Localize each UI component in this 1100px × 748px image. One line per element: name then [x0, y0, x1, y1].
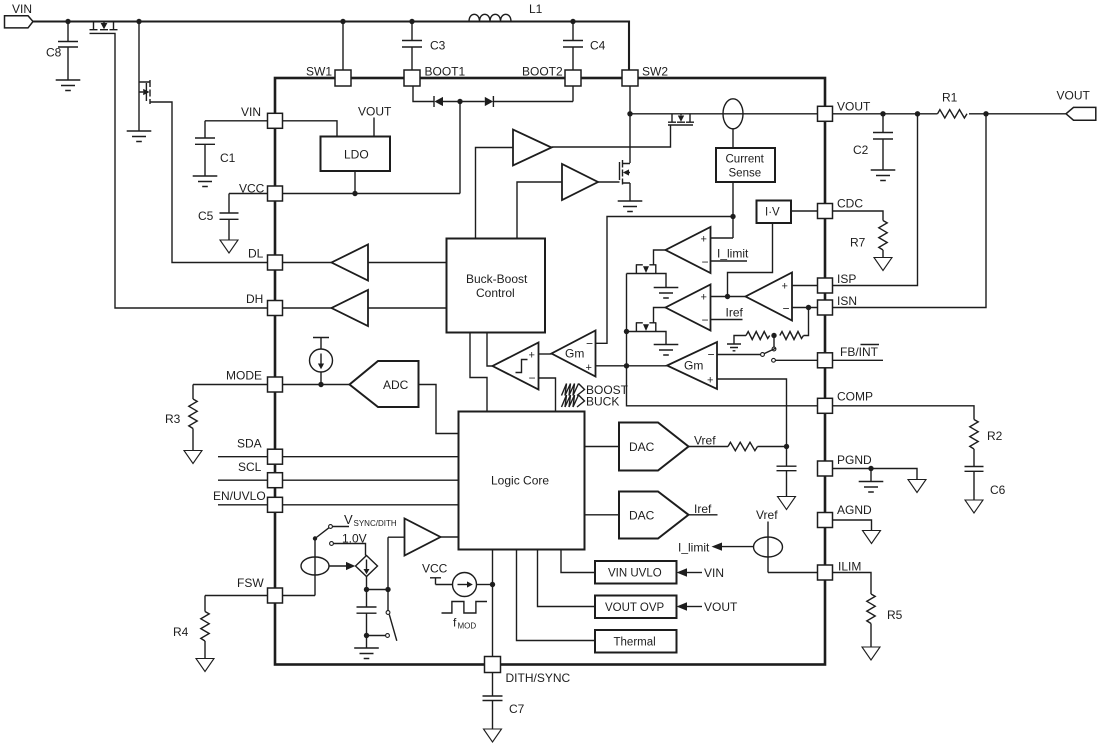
capacitor C7 [483, 673, 503, 730]
BUCK ramp symbol [562, 395, 585, 407]
svg-text:DH: DH [246, 292, 263, 306]
wire: Logic Core to VIN UVLO [561, 550, 595, 573]
capacitor Cdith [357, 607, 377, 648]
svg-text:VIN UVLO: VIN UVLO [608, 568, 662, 580]
pin PGND [818, 461, 833, 476]
wire: Logic Core to DITH/SYNC pin [492, 550, 494, 657]
wire: divider left to small ground [734, 336, 746, 345]
IC boundary [275, 78, 825, 665]
pin SCL [268, 473, 283, 488]
pin BOOT2 [565, 70, 581, 86]
node: LDO output [352, 191, 357, 196]
svg-text:C1: C1 [220, 151, 236, 165]
wire: Gm1 plus / Gm2 output row [596, 365, 668, 367]
capacitor C1 [195, 121, 267, 176]
wire: Vref filter node [758, 446, 787, 448]
svg-text:Iref: Iref [694, 502, 712, 516]
pin ISP [818, 278, 833, 293]
transistor Q3 (high-side output FET inline on VOUT row) [552, 114, 695, 147]
ground (PGND stub, 3-bar) [859, 469, 884, 493]
svg-text:Vref: Vref [694, 434, 716, 448]
resistor R1 [938, 110, 968, 118]
wire: ILIM to R5 [832, 573, 871, 595]
current sense probe ellipse on VOUT row [723, 99, 743, 129]
wire: I_limit comparator output to Q5 gate [654, 250, 666, 265]
node: FSW switch blade [313, 536, 317, 540]
ground (PGND, open triangle) [908, 480, 926, 493]
diode D2 (BOOT2 charge) [460, 86, 573, 107]
wire: A3 minus input to ISN [792, 307, 818, 309]
svg-text:AGND: AGND [837, 503, 872, 517]
svg-text:DL: DL [248, 247, 264, 261]
svg-text:ILIM: ILIM [838, 560, 861, 574]
wire: I-V converter output to Iref plus node [728, 223, 773, 297]
svg-text:C3: C3 [430, 39, 446, 53]
arrow: VOUT into OVP [677, 602, 703, 611]
wire: FB divider to ISN node [804, 308, 809, 336]
ground (Q4 source, 3-bar) [618, 201, 643, 212]
svg-text:+: + [782, 281, 788, 293]
node: dither B [385, 587, 390, 592]
wire: COMP to compensation network [832, 406, 974, 420]
pin BOOT1 [404, 70, 420, 86]
wire: C4 drop to BOOT2 [563, 22, 583, 71]
ground (Q2 source, 3-bar) [127, 131, 152, 142]
svg-text:Control: Control [476, 286, 515, 300]
svg-text:1.0V: 1.0V [342, 532, 367, 546]
buffer amp U4 (sync buffer) [405, 519, 459, 556]
svg-text:BOOT2: BOOT2 [522, 65, 563, 79]
wire: I_limit minus net [711, 260, 748, 262]
wire: FSW pin to dither network [283, 539, 315, 596]
node: Iref plus [725, 294, 730, 299]
resistor R4 [201, 596, 267, 659]
pin SDA [268, 449, 283, 464]
resistor RFB2 (divider right) [780, 332, 804, 340]
svg-text:+: + [701, 292, 707, 304]
wire: Iref minus net [711, 319, 743, 321]
svg-text:C4: C4 [590, 39, 606, 53]
svg-text:C6: C6 [990, 483, 1006, 497]
ground (R3, open triangle) [184, 451, 202, 464]
wire: FB/INT external stub [832, 359, 883, 361]
capacitor C8 [58, 22, 78, 81]
svg-text:Buck-Boost: Buck-Boost [466, 272, 528, 286]
ground (Q6, 3-bar) [654, 345, 679, 356]
comparator Iref (U8) [666, 285, 711, 331]
node: MODE current source [318, 382, 323, 387]
wire: AGND external [832, 520, 872, 531]
svg-text:VCC: VCC [239, 182, 265, 196]
wire: DH driver row [283, 307, 447, 309]
svg-text:R5: R5 [887, 608, 903, 622]
node VOUT (output tag) [1066, 107, 1096, 120]
wire: PGND external [832, 469, 917, 480]
wire: SW2 node down to low-side FET [629, 86, 631, 163]
svg-text:VCC: VCC [422, 562, 448, 576]
block Buck-Boost Control [447, 239, 546, 333]
svg-text:MODE: MODE [226, 369, 262, 383]
svg-text:+: + [707, 375, 713, 387]
resistor R2 [970, 420, 978, 467]
wire: C3 drop to BOOT1 [402, 22, 422, 71]
block VOUT OVP [595, 596, 677, 619]
pin COMP [818, 398, 833, 413]
resistor Rss (Vref filter) [728, 442, 758, 450]
label Iref (comparator net) [726, 306, 744, 320]
wire: Logic Core to DAC1 [585, 446, 620, 448]
svg-text:SW1: SW1 [306, 65, 332, 79]
svg-text:R7: R7 [850, 236, 866, 250]
wire: EN/UVLO line [218, 504, 459, 506]
oscillator probe ellipse (FSW) [301, 557, 329, 575]
svg-text:FB/INT: FB/INT [840, 345, 879, 359]
ADC block (pentagon) [350, 361, 419, 407]
svg-text:C2: C2 [853, 143, 869, 157]
pin MODE [268, 377, 283, 392]
ground (C7, open triangle) [484, 729, 502, 742]
pin CDC [818, 204, 833, 219]
diode D1 (BOOT1 charge) [434, 96, 460, 107]
transistor Q1 (input pass FET on rail) [90, 22, 268, 309]
svg-text:Thermal: Thermal [614, 637, 656, 649]
svg-text:R3: R3 [165, 412, 181, 426]
ground (FB divider, small 3-bar) [727, 344, 741, 351]
amp Gm2 (voltage error amp) [667, 342, 717, 389]
svg-text:SCL: SCL [238, 460, 262, 474]
pin SW1 [335, 70, 351, 86]
svg-text:Gm: Gm [565, 347, 584, 361]
node: FB divider mid [771, 333, 776, 338]
node: clamp rail upper [624, 329, 629, 334]
dependent source VCCS (diamond) [356, 556, 378, 577]
ground (dither, 3-bar) [354, 648, 379, 659]
wire: ILIM to Vref probe [768, 522, 818, 573]
node: PGND star [868, 466, 873, 471]
pin FB/INT [818, 353, 833, 368]
transistor Q6 (lower clamp FET) [627, 323, 667, 345]
resistor R5 [867, 594, 875, 647]
pin DITH/SYNC [485, 657, 501, 673]
node: SW2 output [627, 111, 632, 116]
svg-text:R4: R4 [173, 625, 189, 639]
comparator I_limit (U7) [666, 227, 711, 273]
ground (AGND, open triangle) [863, 531, 881, 544]
pin DH [268, 301, 283, 316]
current source I2 (fMOD into DITH node) [430, 573, 493, 597]
svg-text:C5: C5 [198, 209, 214, 223]
svg-text:VOUT: VOUT [1057, 89, 1091, 103]
svg-text:EN/UVLO: EN/UVLO [213, 489, 266, 503]
wire: A3 plus input to ISP [792, 285, 818, 287]
node: C2 tap [880, 111, 885, 116]
current source I1 (MODE pull-up) [310, 338, 333, 385]
svg-text:−: − [708, 348, 715, 362]
arrow: oscillator to VCCS [329, 562, 355, 570]
wire: Current Sense output node [596, 182, 734, 343]
wire: probe to Current Sense block [732, 129, 734, 148]
wire: Logic Core to DAC2 [585, 514, 620, 516]
node: C8 tap [65, 19, 70, 24]
svg-text:MOD: MOD [458, 622, 477, 631]
capacitor C2 [873, 114, 893, 170]
pin VOUT [818, 106, 833, 121]
label VSYNC/DITH [344, 512, 397, 528]
ground (R7, open triangle) [874, 258, 892, 271]
wire: VCC row (LDO output to VCC pin) [283, 193, 460, 195]
label FB/INT with overline [840, 345, 879, 360]
wire: SW1 drop from rail [342, 22, 344, 71]
svg-text:ADC: ADC [383, 378, 409, 392]
svg-text:ISP: ISP [837, 272, 856, 286]
node: current sense out [730, 214, 735, 219]
regulator block LDO [321, 137, 391, 172]
svg-text:C8: C8 [46, 46, 62, 60]
svg-text:DAC: DAC [629, 440, 655, 454]
resistor R7 [879, 221, 887, 258]
svg-text:−: − [586, 337, 593, 351]
svg-text:DAC: DAC [629, 509, 655, 523]
svg-text:LDO: LDO [344, 148, 369, 162]
ground (C1, 3-bar) [193, 176, 218, 187]
driver amp U6 (DH, left-pointing) [332, 290, 369, 326]
svg-text:SW2: SW2 [642, 65, 668, 79]
fMOD square wave symbol [442, 602, 488, 614]
node: ISN tap [983, 111, 988, 116]
wire: SDA line [218, 456, 459, 458]
node: soft-start [784, 444, 789, 449]
svg-text:VOUT OVP: VOUT OVP [605, 602, 665, 614]
node: dither C [364, 633, 369, 638]
ground (C5, open triangle) [220, 240, 238, 253]
svg-text:SYNC/DITH: SYNC/DITH [354, 519, 397, 528]
svg-text:VOUT: VOUT [837, 100, 871, 114]
ground (C8, 3-bar) [56, 80, 81, 91]
svg-text:R2: R2 [987, 429, 1003, 443]
svg-text:−: − [702, 255, 709, 269]
driver amp U2 (high-side) [476, 130, 552, 239]
wire: DL driver row [283, 262, 447, 264]
block Logic Core [459, 412, 585, 550]
pin EN/UVLO [268, 497, 283, 512]
wire: ADC output to Logic Core [419, 385, 459, 434]
ground (Q5, 3-bar) [654, 288, 679, 299]
wire: Gm1 output to hysteretic comparator plus [539, 353, 552, 355]
wire: MODE row to ADC [283, 384, 350, 386]
svg-text:Vref: Vref [756, 508, 778, 522]
block Current Sense [716, 148, 775, 182]
node: boot diode junction [457, 99, 462, 104]
capacitor C6 [965, 467, 984, 501]
wire: ISP sense line [832, 114, 918, 286]
wire: SCL line [218, 479, 459, 481]
svg-text:CDC: CDC [837, 197, 863, 211]
svg-text:Current: Current [726, 154, 765, 166]
amp Gm1 (mode error amp) [552, 331, 596, 377]
wire: diode junction to VCC net [459, 102, 461, 194]
wire: Gm2 plus input to soft-start node [717, 379, 787, 447]
transistor Q2 (VIN sense FET to DL rail) [139, 22, 267, 263]
svg-text:R1: R1 [942, 91, 958, 105]
wire: Logic Core to hysteretic comparator minus [539, 378, 556, 412]
comparator U9 (hysteretic PWM, with step symbol) [493, 343, 539, 390]
svg-text:L1: L1 [529, 2, 543, 16]
wire: BOOT1 to charge diodes [413, 86, 434, 102]
svg-text:BUCK: BUCK [586, 395, 619, 409]
DAC2 block (Iref) [619, 492, 689, 539]
Vref probe ellipse [754, 537, 783, 557]
pin ILIM [818, 565, 833, 580]
svg-text:VOUT: VOUT [704, 600, 738, 614]
svg-text:−: − [702, 313, 709, 327]
label fMOD [453, 616, 476, 631]
wire: Logic Core to VOUT OVP [538, 550, 596, 607]
wire: BBC to hysteretic comparator and Logic Core [470, 333, 493, 412]
wire: COMP rail (clamp rail) [627, 274, 819, 406]
wire: Iref comparator output to Q6 gate [654, 308, 666, 323]
svg-text:+: + [586, 362, 592, 374]
svg-text:I·V: I·V [765, 207, 780, 219]
svg-text:I_limit: I_limit [678, 541, 710, 555]
svg-text:V: V [344, 512, 353, 527]
svg-text:PGND: PGND [837, 453, 872, 467]
capacitor Css (soft-start) [777, 447, 797, 497]
svg-text:C7: C7 [509, 702, 525, 716]
pin FSW [268, 588, 283, 603]
resistor RFB1 (divider left) [746, 332, 770, 340]
driver amp U3 (low-side) [517, 164, 598, 239]
switch S3 (dither cap bypass) [367, 591, 397, 641]
capacitor C5 [220, 194, 268, 241]
svg-text:−: − [529, 371, 536, 385]
svg-text:ISN: ISN [837, 294, 857, 308]
pin VCC [268, 186, 283, 201]
svg-text:Iref: Iref [726, 306, 744, 320]
svg-text:COMP: COMP [837, 390, 873, 404]
wire: CDC to R7 [832, 211, 883, 221]
wire: VCCS output node [367, 537, 405, 606]
svg-text:BOOT1: BOOT1 [425, 65, 466, 79]
svg-text:+: + [529, 350, 535, 362]
ground (R4, open triangle) [196, 659, 214, 672]
resistor R3 [189, 385, 267, 451]
ground (Css, open triangle) [778, 497, 796, 510]
pin DL [268, 255, 283, 270]
wire: Iref plus input from A3 output [711, 296, 746, 298]
svg-text:VOUT: VOUT [358, 105, 392, 119]
ground (C6, open triangle) [965, 500, 983, 513]
ground (C2, 3-bar) [871, 170, 896, 181]
svg-text:Gm: Gm [684, 359, 703, 373]
node: dither A [364, 587, 369, 592]
svg-text:FSW: FSW [237, 576, 264, 590]
BOOST ramp symbol [562, 384, 585, 396]
transistor Q5 (upper clamp FET) [627, 265, 667, 288]
svg-text:VIN: VIN [12, 2, 32, 16]
block VIN UVLO [595, 561, 677, 584]
node: Q2 tap [136, 19, 141, 24]
wire: ISN sense line [832, 114, 986, 308]
node: C3 tap [409, 19, 414, 24]
wire: VIN pin to LDO [283, 121, 337, 137]
switch S2 (SYNC/1.0V select) [315, 525, 366, 556]
svg-text:VIN: VIN [704, 566, 724, 580]
inductor L1 [469, 14, 511, 21]
node: clamp rail lower [624, 363, 629, 368]
node: ISP tap [915, 111, 920, 116]
arrow: VIN into UVLO [677, 568, 703, 577]
wire: LDO output [354, 171, 356, 194]
svg-text:Sense: Sense [729, 168, 762, 180]
pin SW2 [622, 70, 638, 86]
wire/arrow: I_limit signal out [712, 543, 754, 551]
svg-text:DITH/SYNC: DITH/SYNC [506, 671, 571, 685]
node: SW1 tap [340, 19, 345, 24]
wire: VOUT row external [832, 113, 1066, 115]
node: DITH source [490, 582, 495, 587]
DAC1 block (Vref) [619, 423, 689, 471]
pin ISN [818, 300, 833, 315]
wire: DAC1 Vref output [689, 446, 729, 448]
wire: Logic Core to Thermal [517, 550, 596, 641]
ground (R5, open triangle) [862, 647, 880, 660]
switch S1 (FB/internal select) [717, 336, 818, 363]
driver amp U5 (DL, left-pointing) [332, 245, 369, 281]
node VIN (input tag) [5, 16, 34, 28]
svg-text:+: + [701, 234, 707, 246]
svg-text:Logic Core: Logic Core [491, 474, 549, 488]
label I_limit (comparator net) [717, 247, 749, 261]
wire: I-V to CDC pin [791, 210, 818, 212]
svg-text:SDA: SDA [237, 437, 262, 451]
pin AGND [818, 513, 833, 528]
block I-V converter [757, 201, 792, 224]
svg-text:VIN: VIN [241, 105, 261, 119]
transistor Q4 (low-side output FET) [598, 160, 630, 201]
block Thermal [595, 630, 677, 653]
node: C4 tap [570, 19, 575, 24]
wire: VIN top power rail [33, 22, 629, 71]
amp A3 (ISP/ISN current sense) [746, 273, 793, 321]
wire: VOUT row from SW2 node to VOUT pin [630, 113, 818, 115]
svg-text:−: − [783, 302, 790, 316]
wire: VOUT label to LDO [373, 118, 375, 137]
node: ISN divider [806, 305, 811, 310]
svg-text:I_limit: I_limit [717, 247, 749, 261]
wire: DAC2 Iref output [689, 514, 718, 516]
pin VIN [268, 113, 283, 128]
